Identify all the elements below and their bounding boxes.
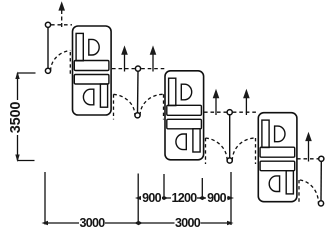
svg-text:3000: 3000 xyxy=(175,216,201,230)
svg-text:1200: 1200 xyxy=(171,191,197,205)
svg-text:900: 900 xyxy=(207,191,227,205)
svg-text:900: 900 xyxy=(142,191,162,205)
svg-text:3500: 3500 xyxy=(8,102,24,134)
svg-text:3000: 3000 xyxy=(79,216,105,230)
